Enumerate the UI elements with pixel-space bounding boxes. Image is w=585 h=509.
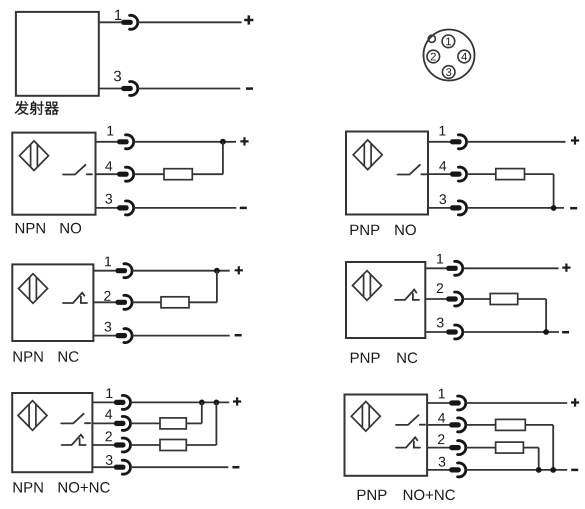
wire label 2 (NPN NO+NC) [106, 431, 112, 441]
supply + (NPN NO+NC) [233, 397, 241, 405]
wire - NC load to dropper (PNP NO+NC) [523, 447, 538, 449]
wire 3 stub (NPN NO) [96, 207, 118, 209]
wire label 4 (NPN NO) [105, 161, 112, 171]
caption NPN (NO+NC row) [14, 482, 43, 492]
wire 2 stub (PNP NC) [425, 298, 447, 300]
wire 1 stub (PNP NO) [428, 141, 451, 143]
supply - (NPN NC) [235, 334, 242, 336]
junction node B on wire 3 (PNP NO+NC) [550, 467, 556, 473]
connector keyway notch [428, 35, 435, 42]
wire label 1 (PNP NO) [440, 126, 446, 136]
wire label 3 (NPN NO) [105, 194, 112, 204]
connector pin 1 [442, 35, 455, 48]
wire - NO load to dropper (PNP NO+NC) [525, 424, 553, 426]
wire label 2 (PNP NO+NC) [438, 434, 444, 444]
proximity sensor symbol (NPN NO+NC) [18, 401, 47, 431]
sensor body NPN NO+NC [12, 393, 92, 472]
connector contact pin 4 (PNP NO) [450, 167, 467, 181]
wire label 3 (NPN NC) [105, 322, 112, 332]
connector contact pin 3 (NPN NO) [117, 201, 134, 215]
connector contact pin 1 (PNP NO+NC) [449, 396, 466, 410]
switch contact NO (PNP) [398, 165, 427, 175]
caption PNP (NC row) [351, 353, 380, 363]
caption NC [59, 351, 79, 362]
wire 2 to load (NPN NC) [132, 301, 161, 303]
wire 1 stub (NPN NC) [93, 270, 116, 272]
wire label 1 (PNP NC) [437, 254, 443, 264]
caption NO (PNP) [395, 225, 416, 236]
wire label 3 (PNP NO) [439, 194, 446, 204]
load resistor (PNP NO) [496, 169, 525, 180]
supply + (NPN NO) [240, 137, 248, 145]
pin label 1 (transmitter wire 1) [115, 10, 121, 20]
wire label 4 (PNP NO+NC) [438, 413, 445, 423]
caption NC (PNP) [397, 352, 417, 363]
connector contact pin 4 (PNP NO+NC) [449, 418, 466, 432]
sensor body PNP NO+NC [345, 395, 428, 476]
wire 1 stub (NPN NO) [96, 141, 118, 143]
wire 4 to load (NPN NO) [134, 173, 164, 175]
wire - load to junction riser (NPN NC) [189, 301, 217, 303]
connector contact pin 3 (NPN NC) [116, 329, 133, 343]
load resistor (PNP NC) [490, 294, 518, 305]
junction node on wire 1 (NPN NC) [214, 268, 220, 274]
connector contact pin 2 (NPN NO+NC) [114, 438, 131, 452]
load resistor NO (NPN NO+NC) [160, 418, 186, 429]
load resistor (NPN NC) [161, 297, 189, 308]
wire 4 to load (PNP NO) [467, 173, 496, 175]
wire 3 stub (PNP NC) [425, 331, 447, 333]
wire - transmitter pin3 to connector [99, 88, 122, 90]
wire 1 (NPN NO) to + [134, 141, 236, 143]
wire - load to dropper (PNP NC) [518, 298, 546, 300]
caption PNP (NO row) [351, 225, 380, 235]
wire 3 (NPN NC) to - [132, 335, 229, 337]
wire label 1 (NPN NO) [107, 126, 113, 136]
wire label 1 (NPN NC) [105, 257, 111, 267]
junction node A on wire 3 (PNP NO+NC) [536, 467, 542, 473]
connector contact pin 1 (NPN NC) [116, 264, 133, 278]
wire - load to dropper (PNP NO) [525, 173, 554, 175]
wire 2 to load (PNP NO+NC) [466, 447, 496, 449]
junction node A on wire 1 (NPN NO+NC) [199, 400, 205, 406]
supply - (PNP NC) [562, 331, 569, 333]
caption NO [61, 223, 82, 234]
wire label 4 (PNP NO) [439, 161, 446, 171]
caption NO+NC [59, 482, 110, 493]
wire 1 (NPN NC) to + [132, 270, 229, 272]
supply + (transmitter) [244, 15, 253, 24]
wire 3 (PNP NC) to - [463, 331, 559, 333]
dropper wire to - rail (PNP NC) [545, 299, 547, 332]
switch contact NO (NPN) [63, 165, 92, 175]
connector pin 4 [458, 50, 471, 63]
wire 1 stub (PNP NO+NC) [427, 402, 450, 404]
supply + (NPN NC) [235, 266, 243, 274]
pin label 3 (transmitter wire 3) [114, 71, 121, 82]
wire 4 to load (PNP NO+NC) [466, 424, 496, 426]
dropper wire A (PNP NO+NC) [538, 448, 540, 470]
supply - (NPN NO+NC) [232, 466, 239, 468]
transmitter box 发射器 [16, 12, 99, 96]
wire 4 stub (NPN NO+NC) [92, 422, 114, 424]
supply - (PNP NO) [570, 207, 577, 209]
wire 1 (PNP NO) to + [467, 141, 566, 143]
connector contact pin 2 (PNP NO+NC) [449, 441, 466, 455]
wire 4 stub (NPN NO) [96, 173, 118, 175]
connector contact pin 1 (NPN NO) [117, 135, 134, 149]
caption NPN (NC row) [14, 351, 43, 361]
supply - (NPN NO) [240, 207, 247, 209]
sensor body NPN NO [12, 133, 95, 215]
switch contact NC (NPN) [63, 293, 87, 303]
connector pin 2 [427, 50, 440, 63]
connector contact pin 3 (NPN NO+NC) [114, 460, 131, 474]
connector contact pin 2 (PNP NC) [446, 292, 463, 306]
M12 connector face outline [424, 30, 475, 81]
junction node on wire 3 (PNP NO) [551, 205, 557, 211]
wire 2 stub (NPN NC) [93, 301, 116, 303]
dropper wire B (PNP NO+NC) [552, 425, 554, 470]
caption NO+NC (PNP) [404, 490, 455, 501]
wire label 1 (NPN NO+NC) [106, 388, 112, 398]
wire 4 stub (PNP NO) [428, 173, 451, 175]
connector contact pin 3 (transmitter) [121, 82, 138, 96]
proximity sensor symbol (PNP NO+NC) [351, 402, 380, 432]
connector contact pin 1 (transmitter) [121, 15, 138, 29]
switch contact NC (NPN NO+NC) [62, 435, 86, 445]
wire 2 stub (PNP NO+NC) [427, 447, 450, 449]
wire 2 to load (PNP NC) [463, 298, 490, 300]
connector contact pin 1 (PNP NC) [446, 261, 463, 275]
riser wire to + rail (NPN NC) [216, 271, 218, 303]
connector contact pin 3 (PNP NO+NC) [449, 463, 466, 477]
dropper wire to - rail (PNP NO) [553, 174, 555, 208]
connector contact pin 1 (NPN NO+NC) [114, 395, 131, 409]
wire 3 (NPN NO) to - [134, 207, 236, 209]
wire 1 stub (PNP NC) [425, 267, 447, 269]
sensor body PNP NO [346, 132, 428, 215]
sensor body PNP NC [346, 262, 425, 338]
switch contact NC (PNP) [395, 290, 419, 300]
wire 3 stub (PNP NO+NC) [427, 469, 450, 471]
junction node B on wire 1 (NPN NO+NC) [214, 400, 220, 406]
wire label 3 (PNP NO+NC) [439, 457, 446, 467]
proximity sensor symbol (NPN NO) [20, 141, 49, 171]
wire label 2 (PNP NC) [437, 283, 443, 293]
wire 4 stub (PNP NO+NC) [427, 424, 450, 426]
switch contact NO (PNP NO+NC) [396, 415, 425, 425]
wire 1 (PNP NO+NC) to + [466, 402, 567, 404]
connector contact pin 4 (NPN NO+NC) [114, 416, 131, 430]
wire 2 stub (NPN NO+NC) [92, 444, 114, 446]
wire 3 stub (NPN NO+NC) [92, 466, 114, 468]
wire 2 to load (NPN NO+NC) [131, 444, 160, 446]
proximity sensor symbol (NPN NC) [19, 274, 48, 304]
load resistor (NPN NO) [164, 169, 192, 180]
wire 3 stub (PNP NO) [428, 207, 451, 209]
wire 4 to load (NPN NO+NC) [131, 422, 160, 424]
wire - NO load to riser (NPN NO+NC) [186, 422, 202, 424]
supply - (PNP NO+NC) [571, 469, 578, 471]
sensor body NPN NC [12, 264, 93, 341]
connector pin 3 [442, 66, 455, 79]
switch contact NO (NPN NO+NC) [61, 414, 90, 424]
wire 1 (NPN NO+NC) to + [131, 401, 230, 403]
load resistor NC (NPN NO+NC) [160, 440, 186, 451]
wire label 4 (NPN NO+NC) [105, 409, 112, 419]
load resistor NC (PNP NO+NC) [496, 442, 524, 453]
riser wire B (NPN NO+NC) [215, 402, 217, 445]
junction node on wire 1 (NPN NO) [220, 139, 226, 145]
wire label 2 (NPN NC) [104, 291, 110, 301]
proximity sensor symbol (PNP NC) [353, 271, 382, 301]
wire 1 stub (NPN NO+NC) [92, 401, 114, 403]
wire label 1 (PNP NO+NC) [439, 389, 445, 399]
supply + (PNP NO) [571, 136, 579, 144]
riser wire to + rail (NPN NO) [222, 142, 224, 175]
supply + (PNP NO+NC) [571, 398, 579, 406]
wire - NC load to riser (NPN NO+NC) [186, 444, 216, 446]
proximity sensor symbol (PNP NO) [353, 140, 382, 170]
wire - transmitter pin1 to + [138, 21, 242, 23]
connector contact pin 1 (PNP NO) [450, 135, 467, 149]
wire 3 stub (NPN NC) [93, 335, 116, 337]
load resistor NO (PNP NO+NC) [496, 419, 526, 430]
junction node on wire 3 (PNP NC) [543, 329, 549, 335]
wire 3 (PNP NO+NC) to - [466, 469, 567, 471]
connector contact pin 2 (NPN NC) [116, 295, 133, 309]
caption PNP (NO+NC row) [358, 490, 387, 500]
wire 3 (PNP NO) to - [467, 207, 564, 209]
connector contact pin 3 (PNP NC) [446, 325, 463, 339]
supply - (transmitter) [246, 88, 253, 90]
connector contact pin 3 (PNP NO) [450, 201, 467, 215]
wire 3 (NPN NO+NC) to - [131, 466, 229, 468]
switch contact NC (PNP NO+NC) [396, 437, 420, 447]
wire 1 (PNP NC) to + [463, 267, 559, 269]
label 发射器 (transmitter) [15, 101, 59, 115]
wire - load to junction riser (NPN NO) [192, 173, 223, 175]
supply + (PNP NC) [562, 264, 570, 272]
caption NPN (NO row) [16, 223, 45, 233]
wire label 3 (NPN NO+NC) [106, 455, 113, 465]
wire - transmitter pin1 to connector [99, 21, 122, 23]
wire - transmitter pin3 to - [138, 88, 240, 90]
wire label 3 (PNP NC) [437, 318, 444, 328]
riser wire A (NPN NO+NC) [201, 402, 203, 423]
connector contact pin 4 (NPN NO) [117, 167, 134, 181]
